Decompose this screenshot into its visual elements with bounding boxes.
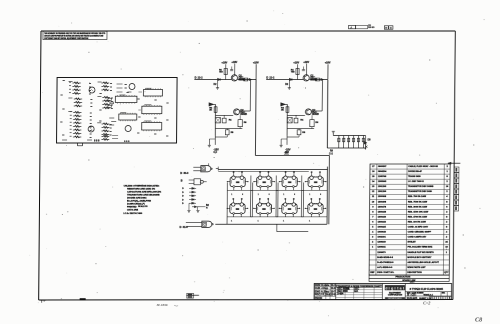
svg-text:+10V: +10V [222, 62, 228, 65]
svg-text:+10V: +10V [293, 62, 299, 65]
svg-text:1105748: 1105748 [378, 175, 387, 178]
svg-text:EIA: EIA [354, 290, 358, 293]
svg-text:+10V: +10V [325, 62, 331, 65]
svg-text:I.C. DEC 7400 N: I.C. DEC 7400 N [408, 180, 424, 183]
svg-text:ASSY/DRILLING HOLE LAYOUT: ASSY/DRILLING HOLE LAYOUT [407, 261, 439, 264]
svg-text:-15V: -15V [284, 153, 289, 155]
svg-text:1300243: 1300243 [378, 220, 387, 223]
svg-text:DIODE IN5-4F: DIODE IN5-4F [408, 170, 422, 173]
svg-text:8 TYPED FLIP FLOPS W205: 8 TYPED FLIP FLOPS W205 [410, 287, 444, 291]
svg-text:RESISTORS ARE 1/4W; 5%: RESISTORS ARE 1/4W; 5% [127, 187, 155, 190]
svg-text:DIODES ARE D664: DIODES ARE D664 [127, 196, 147, 199]
svg-text:1300278: 1300278 [378, 206, 387, 208]
svg-text:+10V: +10V [253, 62, 259, 65]
svg-text:a: a [400, 286, 402, 290]
svg-text:1: 1 [309, 194, 310, 196]
svg-text:1300248: 1300248 [378, 210, 387, 213]
svg-text:COND 6.8MFD 35V: COND 6.8MFD 35V [408, 237, 427, 239]
svg-text:A: A [350, 25, 352, 29]
svg-text:1303343: 1303343 [378, 180, 387, 183]
svg-text:D: D [266, 76, 268, 80]
svg-text:C,F: C,F [213, 152, 217, 154]
svg-text:g: g [391, 286, 393, 290]
svg-text:0904204: 0904204 [378, 170, 387, 173]
svg-text:1209340: 1209340 [377, 241, 386, 244]
svg-text:CABLE, FLEX GRAY - 36DC43: CABLE, FLEX GRAY - 36DC43 [408, 165, 439, 168]
svg-text:RES. 7500 5% 1/4W: RES. 7500 5% 1/4W [408, 200, 427, 203]
svg-text:1: 1 [231, 194, 232, 196]
svg-text:3639B: 3639B [240, 114, 247, 116]
svg-text:1301290: 1301290 [378, 191, 387, 193]
svg-text:10-8: 10-8 [331, 294, 337, 297]
svg-text:C=2: C=2 [423, 300, 430, 305]
svg-text:i: i [389, 286, 390, 290]
svg-text:CORPORATION: CORPORATION [388, 294, 403, 297]
svg-text:TRANSISTORS ARE DEC3639B: TRANSISTORS ARE DEC3639B [127, 193, 160, 196]
svg-text:A-PL-W205-0-0: A-PL-W205-0-0 [377, 266, 393, 269]
svg-text:10: 10 [385, 28, 387, 30]
svg-text:1209070: 1209070 [377, 252, 386, 254]
svg-text:M-1836: M-1836 [156, 303, 168, 307]
svg-text:30-3: 30-3 [183, 172, 189, 175]
svg-text:B: B [181, 180, 183, 183]
svg-text:UNLESS OTHERWISE INDICATED:: UNLESS OTHERWISE INDICATED: [124, 184, 160, 187]
svg-text:1002101: 1002101 [377, 237, 386, 239]
svg-text:RES. 3000 5% 1/4W: RES. 3000 5% 1/4W [408, 205, 427, 208]
svg-text:3639B: 3639B [312, 114, 319, 116]
svg-text:1300298: 1300298 [378, 201, 387, 203]
svg-text:TRANS 3639: TRANS 3639 [408, 175, 421, 178]
svg-text:PRINTED: PRINTED [127, 207, 137, 209]
svg-text:PROD: PROD [315, 296, 323, 300]
svg-text:RES. 100 5% 1/4W: RES. 100 5% 1/4W [408, 220, 426, 223]
svg-text:C-2: C-2 [329, 152, 334, 155]
svg-text:-15V: -15V [213, 149, 219, 152]
svg-text:RES. 1500 10% 1/4W: RES. 1500 10% 1/4W [408, 210, 428, 213]
svg-text:EYELET: EYELET [408, 242, 417, 244]
svg-text:1: 1 [283, 194, 284, 196]
svg-text:TRANSISTOR DEC 3639B: TRANSISTOR DEC 3639B [408, 185, 434, 188]
svg-text:I.C.S: DEC74 7400: I.C.S: DEC74 7400 [123, 212, 143, 215]
svg-text:D: D [179, 225, 181, 229]
svg-text:22-2: 22-2 [269, 77, 275, 80]
svg-text:1300246: 1300246 [378, 215, 387, 218]
svg-text:d: d [385, 286, 387, 290]
svg-text:3K: 3K [281, 109, 284, 111]
svg-text:14: 14 [390, 27, 392, 30]
svg-text:i: i [394, 286, 395, 290]
svg-text:1: 1 [258, 220, 259, 222]
svg-text:C8: C8 [475, 316, 482, 323]
svg-text:COND .01 MFD 100V: COND .01 MFD 100V [408, 227, 429, 229]
svg-text:1: 1 [231, 220, 232, 222]
svg-text:ON ALL ICS: ON ALL ICS [138, 205, 148, 208]
svg-text:D-AD-7005318-0: D-AD-7005318-0 [377, 261, 394, 264]
svg-text:HANDLE FLIP W/2 RIVETS: HANDLE FLIP W/2 RIVETS [407, 251, 434, 254]
svg-text:CHG NO: CHG NO [368, 27, 375, 29]
svg-text:QTY: QTY [444, 272, 449, 274]
svg-text:1000048: 1000048 [377, 231, 386, 234]
svg-text:8 8 8: 8 8 8 [94, 140, 100, 143]
svg-text:W205 PARTS LIST: W205 PARTS LIST [407, 266, 426, 269]
svg-text:1: 1 [309, 220, 310, 222]
svg-text:CKTS ARE: CKTS ARE [127, 208, 139, 211]
svg-text:+10V: +10V [232, 61, 238, 64]
svg-text:MODULE ECO HISTORY: MODULE ECO HISTORY [407, 257, 432, 259]
svg-text:MAYNARD,MASS.: MAYNARD,MASS. [388, 297, 403, 300]
svg-text:1300368: 1300368 [378, 196, 387, 198]
svg-text:DESCRIPTION: DESCRIPTION [407, 272, 422, 274]
svg-text:22-2: 22-2 [198, 77, 204, 80]
svg-text:D: D [180, 171, 182, 175]
svg-text:0: 0 [294, 194, 295, 196]
svg-text:COND CERAMIC 680PF: COND CERAMIC 680PF [408, 231, 432, 234]
svg-text:3K: 3K [209, 109, 212, 111]
svg-text:1209341: 1209341 [377, 246, 386, 249]
svg-text:W205-0-1: W205-0-1 [423, 295, 433, 297]
svg-text:D: D [195, 76, 197, 80]
svg-text:0: 0 [320, 194, 321, 196]
svg-text:CS: CS [412, 294, 416, 297]
svg-text:+10V: +10V [303, 61, 309, 64]
svg-text:1301293: 1301293 [378, 186, 387, 188]
svg-text:RES. 4700 5% 1/4W: RES. 4700 5% 1/4W [408, 215, 427, 218]
svg-text:0: 0 [242, 194, 243, 196]
svg-text:0900307: 0900307 [378, 166, 387, 168]
svg-text:CAPACITORS ARE MFD,100V,5%: CAPACITORS ARE MFD,100V,5% [127, 190, 161, 193]
svg-text:1: 1 [258, 194, 259, 196]
svg-text:PIN, SOLDER TERM BRZ: PIN, SOLDER TERM BRZ [408, 247, 434, 249]
svg-text:l: l [403, 286, 404, 290]
svg-text:COPYRIGHT 1969 BY DIGITAL EQUI: COPYRIGHT 1969 BY DIGITAL EQUIPMENT CORP… [44, 37, 89, 40]
svg-text:DWG / PART NO.: DWG / PART NO. [377, 271, 395, 274]
svg-text:0: 0 [269, 194, 270, 196]
svg-text:DIST: DIST [410, 282, 416, 284]
svg-text:REF: REF [370, 272, 375, 274]
svg-text:D-664: D-664 [337, 292, 344, 295]
svg-text:B: B [407, 293, 409, 297]
svg-text:TRANSISTOR DEC 3639: TRANSISTOR DEC 3639 [408, 190, 433, 193]
svg-text:o o o: o o o [124, 141, 130, 143]
svg-text:31-3: 31-3 [183, 226, 189, 229]
svg-text:B-MD-W205-0-5: B-MD-W205-0-5 [377, 257, 394, 259]
svg-text:RES. 750 5% 1/4W: RES. 750 5% 1/4W [408, 195, 426, 198]
svg-text:E=+10V(A),+10(B),PINS: E=+10V(A),+10(B),PINS [127, 199, 152, 202]
svg-text:1000225: 1000225 [377, 227, 386, 229]
svg-text:1: 1 [283, 220, 284, 222]
svg-text:-15V: -15V [285, 149, 291, 152]
